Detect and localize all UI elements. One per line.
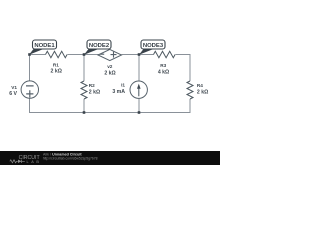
svg-text:http://circuitlab.com/c6w52sp5: http://circuitlab.com/c6w52sp5g7b78 (43, 156, 98, 160)
svg-text:NODE2: NODE2 (89, 43, 110, 49)
svg-text:R1: R1 (53, 63, 59, 68)
svg-text:NODE1: NODE1 (34, 43, 55, 49)
svg-text:V1: V1 (11, 85, 17, 90)
svg-text:4 kΩ: 4 kΩ (158, 69, 169, 75)
svg-text:LAB: LAB (27, 160, 42, 164)
svg-text:2 kΩ: 2 kΩ (197, 89, 208, 95)
svg-text:3 mA: 3 mA (112, 89, 125, 95)
svg-text:I1: I1 (121, 83, 125, 88)
svg-text:R2: R2 (89, 83, 95, 88)
svg-text:R3: R3 (160, 63, 166, 68)
svg-text:NODE3: NODE3 (143, 43, 164, 49)
svg-text:2 kΩ: 2 kΩ (104, 70, 115, 76)
svg-text:2 kΩ: 2 kΩ (51, 68, 62, 74)
svg-text:v2: v2 (107, 64, 113, 69)
svg-text:R4: R4 (197, 83, 203, 88)
svg-text:2 kΩ: 2 kΩ (89, 90, 100, 96)
svg-text:6 V: 6 V (9, 91, 17, 97)
